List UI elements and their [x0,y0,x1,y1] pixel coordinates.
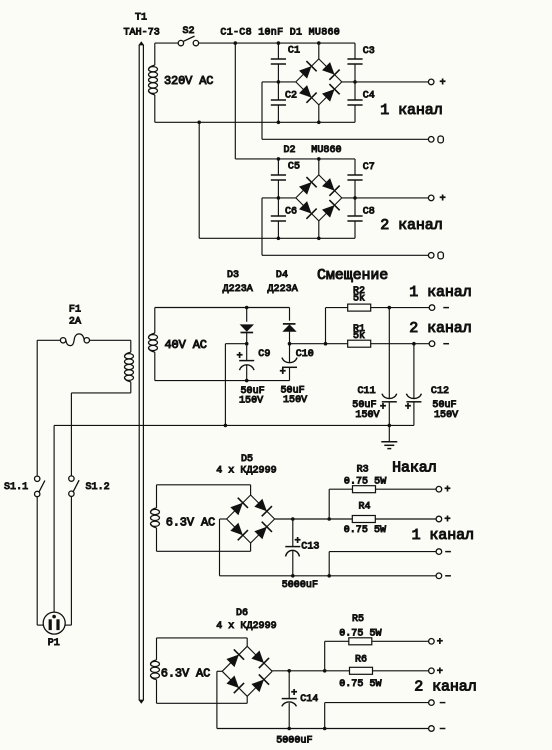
wire R5 row [325,640,349,642]
wire fuse feed down to S1.1 [36,340,38,476]
wire 6.3V-1 bottom rail [157,550,251,552]
svg-text:D3: D3 [227,270,239,281]
wire S1.1 to plug [37,497,43,625]
svg-text:MU860: MU860 [311,145,341,156]
junction plus row / R3 branch [327,517,331,521]
svg-text:+: + [444,515,450,526]
plug P1 [43,612,65,634]
junction C5/C6 minus node [277,196,281,200]
junction node A / D3 / C9 [245,342,249,346]
wire top AC rail y=43 [199,42,355,44]
capacitor C7 [347,159,362,198]
junction R2 output / C11 [388,306,392,310]
wire D2 minus node to C5/C6 [262,197,296,199]
bridge rectifier D6 4x KD2999 [222,646,272,696]
svg-text:C1-C8 10nF D1 MU860: C1-C8 10nF D1 MU860 [220,27,340,38]
svg-text:6.3V AC: 6.3V AC [161,666,210,680]
junction top rail / C1 [277,41,281,45]
svg-text:2 канал: 2 канал [414,679,476,696]
resistor R1 [348,340,371,347]
wire D2 bottom stub [318,221,320,238]
svg-text:C6: C6 [285,207,297,218]
svg-text:1 канал: 1 канал [409,284,471,301]
svg-text:5k: 5k [353,293,365,305]
svg-text:D6: D6 [236,608,248,619]
capacitor C8 [347,198,362,238]
label - (filament2 upper) [440,702,446,704]
transformer T1 core [138,41,144,704]
capacitor C5 [271,159,286,198]
svg-text:6.3V AC: 6.3V AC [166,516,215,530]
wire R1 to output [371,343,430,345]
junction D2 bottom rail / C6 [277,237,281,241]
wire common ground rail y=425 [54,424,414,426]
svg-text:5k: 5k [353,330,365,342]
svg-text:Д223А: Д223А [268,284,298,295]
junction minus rail / C13 [291,574,295,578]
junction D2 bottom rail / D2 bottom [317,237,321,241]
wire D2 bottom AC feed [198,122,200,238]
svg-text:Накал: Накал [392,460,437,477]
wire R5 branch vertical [324,641,326,671]
svg-text:C11: C11 [358,386,376,397]
wire D2 plus output [342,197,429,199]
capacitor C4 [347,82,362,122]
wire R2 to output [371,307,430,309]
bridge rectifier D1 MU860 [296,59,342,105]
winding 6.3V AC (2) [151,638,160,703]
winding 6.3V AC (1) [151,485,160,552]
svg-text:R4: R4 [359,502,371,513]
svg-text:C1: C1 [288,46,300,57]
label - (bias ch2) [443,343,449,345]
wire D5 bottom stub [250,543,252,551]
junction bottom rail / D1 bottom [317,121,321,125]
svg-text:D5: D5 [241,454,253,465]
svg-text:+: + [295,537,301,548]
svg-text:4 x КД2999: 4 x КД2999 [216,621,277,632]
wire D5 minus to bottom rail [220,519,227,576]
svg-text:C7: C7 [363,162,375,173]
wire D1 minus node to C1/C2 [262,81,296,83]
wire 6.3V-2 bottom rail [157,702,248,704]
wire bottom AC rail y=122 [155,121,355,123]
wire bias winding bottom rail y=380.6 [155,380,290,382]
label - (filament2 lower) [440,728,446,730]
junction top rail / D1 top [317,41,321,45]
svg-text:5000uF: 5000uF [276,736,312,747]
wire D6 plus row [272,670,428,672]
junction bottom rail / C2 [277,121,281,125]
capacitor C13 [285,519,300,576]
svg-text:0.75 5W: 0.75 5W [344,476,386,487]
junction ground rail / bias node A [224,424,228,428]
terminal filament-2 plus lower [429,668,435,674]
terminal bias channel-1 minus [429,305,435,311]
svg-text:150V: 150V [355,410,379,421]
terminal filament-1 minus upper [436,549,442,555]
capacitor C6 [271,198,286,238]
wire D5 plus row [275,518,437,520]
wire D2 0-output [262,198,428,255]
wire D5 minus rail y=575.8 [220,575,437,577]
svg-text:C12: C12 [431,386,449,397]
resistor R3 [353,486,376,493]
wire bias top rail y=307.5 [155,307,290,309]
capacitor C1 [271,43,286,82]
terminal channel-2 zero [428,253,434,259]
label - (bias ch1) [443,307,449,309]
ground symbol [381,425,397,448]
wire R2 branch vertical [325,308,327,344]
wire D2 AC feed from top rail [234,43,236,159]
svg-text:150V: 150V [434,410,458,421]
wire D1 top stub [318,43,320,59]
svg-text:+: + [380,403,386,414]
junction bias top rail / D3 [245,306,249,310]
junction R1 line / R2 branch [324,342,328,346]
label 0 (channel 2) [438,252,444,259]
switch S1.1 [35,476,45,497]
svg-text:TAH-73: TAH-73 [124,27,160,38]
bridge rectifier D2 MU860 [296,175,342,221]
resistor R4 [352,516,375,523]
svg-text:0.75 5W: 0.75 5W [339,679,381,690]
bridge rectifier D5 4x KD2999 [227,495,275,543]
terminal filament-2 minus upper [429,700,435,706]
terminal filament-2 minus lower [429,726,435,732]
terminal channel-1 plus [428,79,434,85]
svg-text:S2: S2 [183,26,195,37]
terminal filament-1 plus lower [436,516,442,522]
winding 40V AC [149,308,158,381]
svg-text:R3: R3 [357,465,369,476]
junction bias bottom rail / C9 [245,379,249,383]
svg-text:2 канал: 2 канал [380,217,442,234]
capacitor C11 [382,308,397,426]
label - (filament1 upper) [445,551,451,553]
svg-text:C5: C5 [288,162,300,173]
wire top rail from winding to S2 [155,42,178,44]
resistor R6 [350,667,373,674]
svg-text:+: + [405,403,411,414]
wire minus upper branch vertical (2) [324,703,326,729]
junction minus rail / upper minus branch (2) [323,727,327,731]
svg-text:P1: P1 [48,638,60,649]
svg-text:C14: C14 [300,694,318,705]
capacitor C9 [239,344,254,381]
svg-text:320V AC: 320V AC [164,74,213,88]
svg-text:Смещение: Смещение [317,267,388,284]
wire D6 minus rail y=728.5 [217,728,429,730]
junction C1/C2 minus node [277,80,281,84]
svg-text:+: + [291,689,297,700]
svg-text:C4: C4 [363,90,375,101]
svg-text:D2: D2 [284,145,296,156]
resistor R5 [349,638,372,645]
switch S1.2 [69,476,79,497]
wire R3 branch vertical [328,489,330,519]
wire D6 top stub [246,638,248,646]
wire 6.3V-2 top rail [157,637,248,639]
wire D6 minus to bottom rail [217,671,222,728]
wire 6.3V-1 top rail [157,484,251,486]
wire bias node A to ground rail [225,344,246,426]
capacitor C10 [282,344,297,381]
wire minus upper branch vertical [328,552,330,576]
wire filament-1 minus upper row [329,551,436,553]
svg-text:R5: R5 [352,614,364,625]
junction plus row / C14 [287,669,291,673]
junction top rail / D2 feed [234,41,238,45]
junction minus rail / upper minus branch [327,574,331,578]
terminal bias channel-2 minus [429,341,435,347]
junction plus row / R5 branch [323,669,327,673]
wire D2 bottom rail y=238 [199,237,355,239]
fuse F1 [60,334,89,346]
terminal channel-1 zero [428,137,434,143]
svg-text:0.75 5W: 0.75 5W [339,629,381,640]
label 0 (channel 1) [438,136,444,143]
junction minus rail / C14 [287,727,291,731]
junction D2 top rail / C5 [277,157,281,161]
wire node B to R1 [290,343,348,345]
junction node B / D4 / C10 [288,342,292,346]
svg-text:Д223А: Д223А [223,284,253,295]
svg-text:C13: C13 [301,542,319,553]
terminal channel-2 plus [428,195,434,201]
svg-text:1 канал: 1 канал [380,102,442,119]
wire D1 0-output [262,82,428,139]
svg-text:S1.1: S1.1 [4,482,28,493]
svg-text:+: + [437,637,443,648]
svg-text:R6: R6 [355,654,367,665]
junction C3/C4 plus node [353,80,357,84]
wire ground rail to plug center pin [53,425,55,615]
svg-text:+: + [440,78,446,89]
svg-text:2A: 2A [69,317,81,328]
capacitor C2 [271,82,286,122]
wire D6 bottom stub [246,696,248,703]
svg-text:5000uF: 5000uF [282,580,318,591]
wire D5 top stub [250,485,252,495]
junction ground rail / C11 [388,424,392,428]
svg-text:C10: C10 [296,349,314,360]
junction bottom rail / D2 bottom feed [197,121,201,125]
svg-text:150V: 150V [239,396,263,407]
winding 220V primary [125,340,134,393]
svg-text:4 x КД2999: 4 x КД2999 [216,466,277,477]
terminal filament-1 plus upper [436,486,442,492]
terminal filament-1 minus lower [436,573,442,579]
svg-text:40V AC: 40V AC [165,338,207,352]
junction plus row / C13 [291,517,295,521]
svg-text:T1: T1 [135,13,147,24]
svg-text:C9: C9 [258,349,270,360]
wire R5 to output [372,640,429,642]
svg-text:2 канал: 2 канал [409,320,471,337]
wire R3 to output [376,488,437,490]
junction C7/C8 plus node [353,196,357,200]
svg-text:C3: C3 [363,46,375,57]
wire R2 row [326,307,348,309]
svg-text:C2: C2 [285,91,297,102]
svg-text:+: + [444,485,450,496]
resistor R2 [348,304,371,311]
svg-text:1 канал: 1 канал [412,527,474,544]
capacitor C3 [347,43,362,82]
wire D2 top rail y=159 [235,158,355,160]
diode D3 [240,308,254,344]
svg-text:D4: D4 [276,270,288,281]
wire fuse to primary winding [89,339,130,341]
svg-text:+: + [237,351,243,362]
svg-text:150V: 150V [283,395,307,406]
svg-text:C8: C8 [363,206,375,217]
svg-text:F1: F1 [69,305,81,316]
wire D2 top stub [318,159,320,175]
label - (filament1 lower) [445,575,451,577]
capacitor C14 [282,671,297,729]
svg-text:+: + [440,194,446,205]
switch S2 [178,36,198,46]
svg-text:0.75 5W: 0.75 5W [344,525,386,536]
winding 320V AC secondary [149,43,158,122]
wire primary bottom to S1.2 [71,393,130,476]
terminal filament-2 plus upper [429,639,435,645]
svg-text:S1.2: S1.2 [86,482,110,493]
junction R1 output / C12 [412,342,416,346]
wire R3 row [329,488,352,490]
wire S1.2 to plug [65,496,71,625]
wire filament-2 minus upper row [325,702,429,704]
wire D1 plus output [342,81,429,83]
junction D2 top rail / D2 top [317,157,321,161]
svg-text:+: + [437,667,443,678]
wire fuse left [37,339,60,341]
svg-text:+: + [280,367,286,378]
wire D1 bottom stub [318,105,320,122]
diode D4 [282,308,296,344]
capacitor C12 [406,344,421,426]
